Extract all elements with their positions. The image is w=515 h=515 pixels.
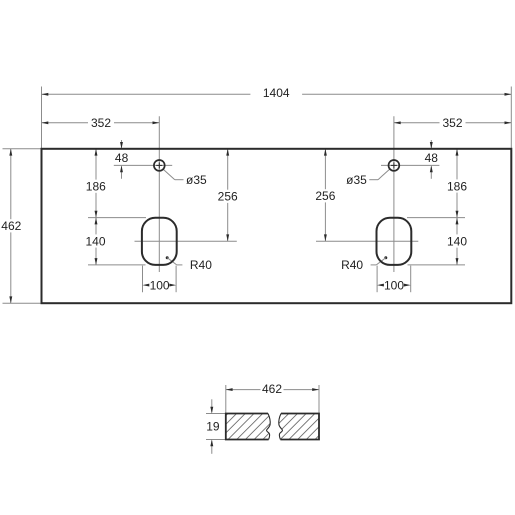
dimension 48 left arrows (121, 140, 123, 148)
extension line 462 top-left (3, 148, 42, 150)
section thickness 19 extension bottom (206, 439, 226, 441)
centerline left oval horizontal (y=241.2) (135, 240, 237, 242)
dimension 1404 line (42, 93, 512, 95)
dimension 352 right line (394, 122, 511, 124)
dimension 352 left line (42, 122, 160, 124)
dimension 462 left text (0, 219, 23, 232)
svg-text:352: 352 (91, 116, 111, 130)
dimension 140 right line (456, 218, 458, 265)
svg-text:186: 186 (86, 179, 106, 193)
svg-text:100: 100 (384, 278, 404, 292)
svg-text:ø35: ø35 (186, 173, 207, 187)
dimension 256 left text (215, 190, 241, 203)
extension line 140 bottom right (408, 264, 466, 266)
section right piece outline (280, 414, 319, 440)
svg-text:100: 100 (150, 278, 170, 292)
svg-text:R40: R40 (190, 258, 212, 272)
extension line 462 bottom-left (3, 302, 42, 304)
dimension 256 left line (227, 149, 229, 241)
leader line R40 right with dot (384, 256, 387, 259)
section extension line left (x=225.8) (225, 385, 227, 414)
dimension 140 right text (444, 234, 470, 247)
dimension 140 left text (82, 234, 108, 247)
svg-text:256: 256 (218, 190, 238, 204)
dimension 186 right text (444, 179, 470, 192)
extension line 186 bottom right (407, 217, 465, 219)
dimension 100 right arrows (377, 284, 384, 287)
leader line R40 left with dot (166, 256, 169, 259)
centerline left hole vertical (158, 116, 160, 272)
dimension 19 arrows (211, 399, 213, 412)
svg-text:48: 48 (115, 151, 129, 165)
dimension 1404 text (250, 86, 302, 99)
section dimension 462 text (261, 382, 284, 395)
section thickness 19 extension top (206, 413, 226, 415)
svg-text:462: 462 (1, 219, 21, 233)
extension line left edge top (x=41.5) (41, 87, 43, 149)
dimension 100 left arrows (143, 284, 150, 287)
section extension line right (x=319) (318, 385, 320, 414)
faucet hole right center cross (391, 164, 397, 166)
dimension 140 left line (95, 218, 97, 265)
extension line 140 bottom left (y=264.9) (88, 264, 146, 266)
dimension 256 right line (324, 149, 326, 241)
faucet hole circle right ø35 (389, 160, 400, 171)
svg-text:ø35: ø35 (346, 173, 367, 187)
faucet hole left center cross (156, 164, 162, 166)
dimension 186 left text (83, 180, 109, 193)
section hatching left piece (192, 412, 352, 441)
dimension 186 right line (456, 149, 458, 218)
svg-text:186: 186 (447, 179, 467, 193)
countertop outline rectangle 1404x462 (42, 149, 512, 303)
leader line ø35 right (378, 169, 390, 180)
svg-text:19: 19 (206, 420, 220, 434)
svg-text:462: 462 (262, 382, 282, 396)
extension line 186 bottom left (y=217.6) (88, 217, 146, 219)
svg-text:R40: R40 (341, 258, 363, 272)
dimension 186 left line (95, 149, 97, 218)
faucet hole circle left ø35 (154, 160, 165, 171)
svg-text:256: 256 (315, 189, 335, 203)
basin cutout rounded rect right 100x140 R40 (377, 218, 412, 265)
svg-text:48: 48 (425, 151, 439, 165)
section left piece outline (226, 414, 269, 440)
centerline right oval horizontal (316, 240, 418, 242)
section hatching right piece (192, 412, 352, 441)
extension lines 100 right (376, 266, 378, 293)
extension lines 100 left (142, 266, 144, 293)
svg-text:140: 140 (447, 234, 467, 248)
leader line ø35 left (163, 169, 175, 180)
dimension 352 right text (440, 116, 466, 129)
centerline right hole horizontal (381, 164, 439, 166)
svg-text:352: 352 (442, 116, 462, 130)
dimension 462 left line (10, 149, 12, 303)
section dimension 462 line (226, 389, 319, 391)
extension line right edge top (x=511.3) (510, 87, 512, 149)
svg-text:140: 140 (85, 234, 105, 248)
dimension 48 right arrows (430, 140, 432, 148)
dimension 256 right text (312, 189, 338, 202)
dimension 352 left text (88, 116, 114, 129)
centerline right hole vertical (393, 116, 395, 272)
centerline left hole horizontal (114, 164, 172, 166)
basin cutout rounded rect left 100x140 R40 (142, 218, 177, 265)
svg-text:1404: 1404 (263, 86, 290, 100)
